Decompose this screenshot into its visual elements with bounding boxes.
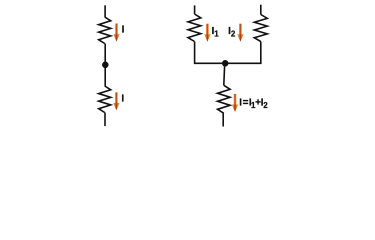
current arrow I (bottom, left circuit) <box>113 92 119 110</box>
resistor R2 (left circuit, lower) <box>99 86 111 113</box>
node A (junction dot, left circuit) <box>102 62 109 69</box>
wire: left circuit top lead <box>104 5 106 17</box>
wire: right circuit bottom lead <box>222 113 224 126</box>
resistor R1 (left circuit, upper) <box>99 17 111 44</box>
wire: bottom bus joining both branches <box>195 42 261 64</box>
current arrow I2 (parallel right branch) <box>237 24 243 42</box>
node B (junction dot, right circuit) <box>222 60 229 67</box>
wire: right circuit left branch top lead <box>194 5 196 14</box>
wire: node B to R5 top <box>223 63 226 85</box>
wire: left circuit bottom lead <box>104 113 106 127</box>
wire: R1 bottom to node A <box>104 44 106 65</box>
wire: node A to R2 top <box>104 65 106 86</box>
resistor R5 (combined branch) <box>218 85 231 113</box>
current arrow I (top, left circuit) <box>113 24 119 42</box>
svg-text:I: I <box>121 93 124 104</box>
svg-text:I: I <box>122 25 125 36</box>
resistor R4 (parallel right branch) <box>254 15 267 42</box>
current arrow I1 (parallel left branch) <box>204 24 210 42</box>
wire: right circuit right branch top lead <box>260 5 262 15</box>
current arrow I total (combined branch) <box>232 94 238 112</box>
resistor R3 (parallel left branch) <box>188 14 201 42</box>
